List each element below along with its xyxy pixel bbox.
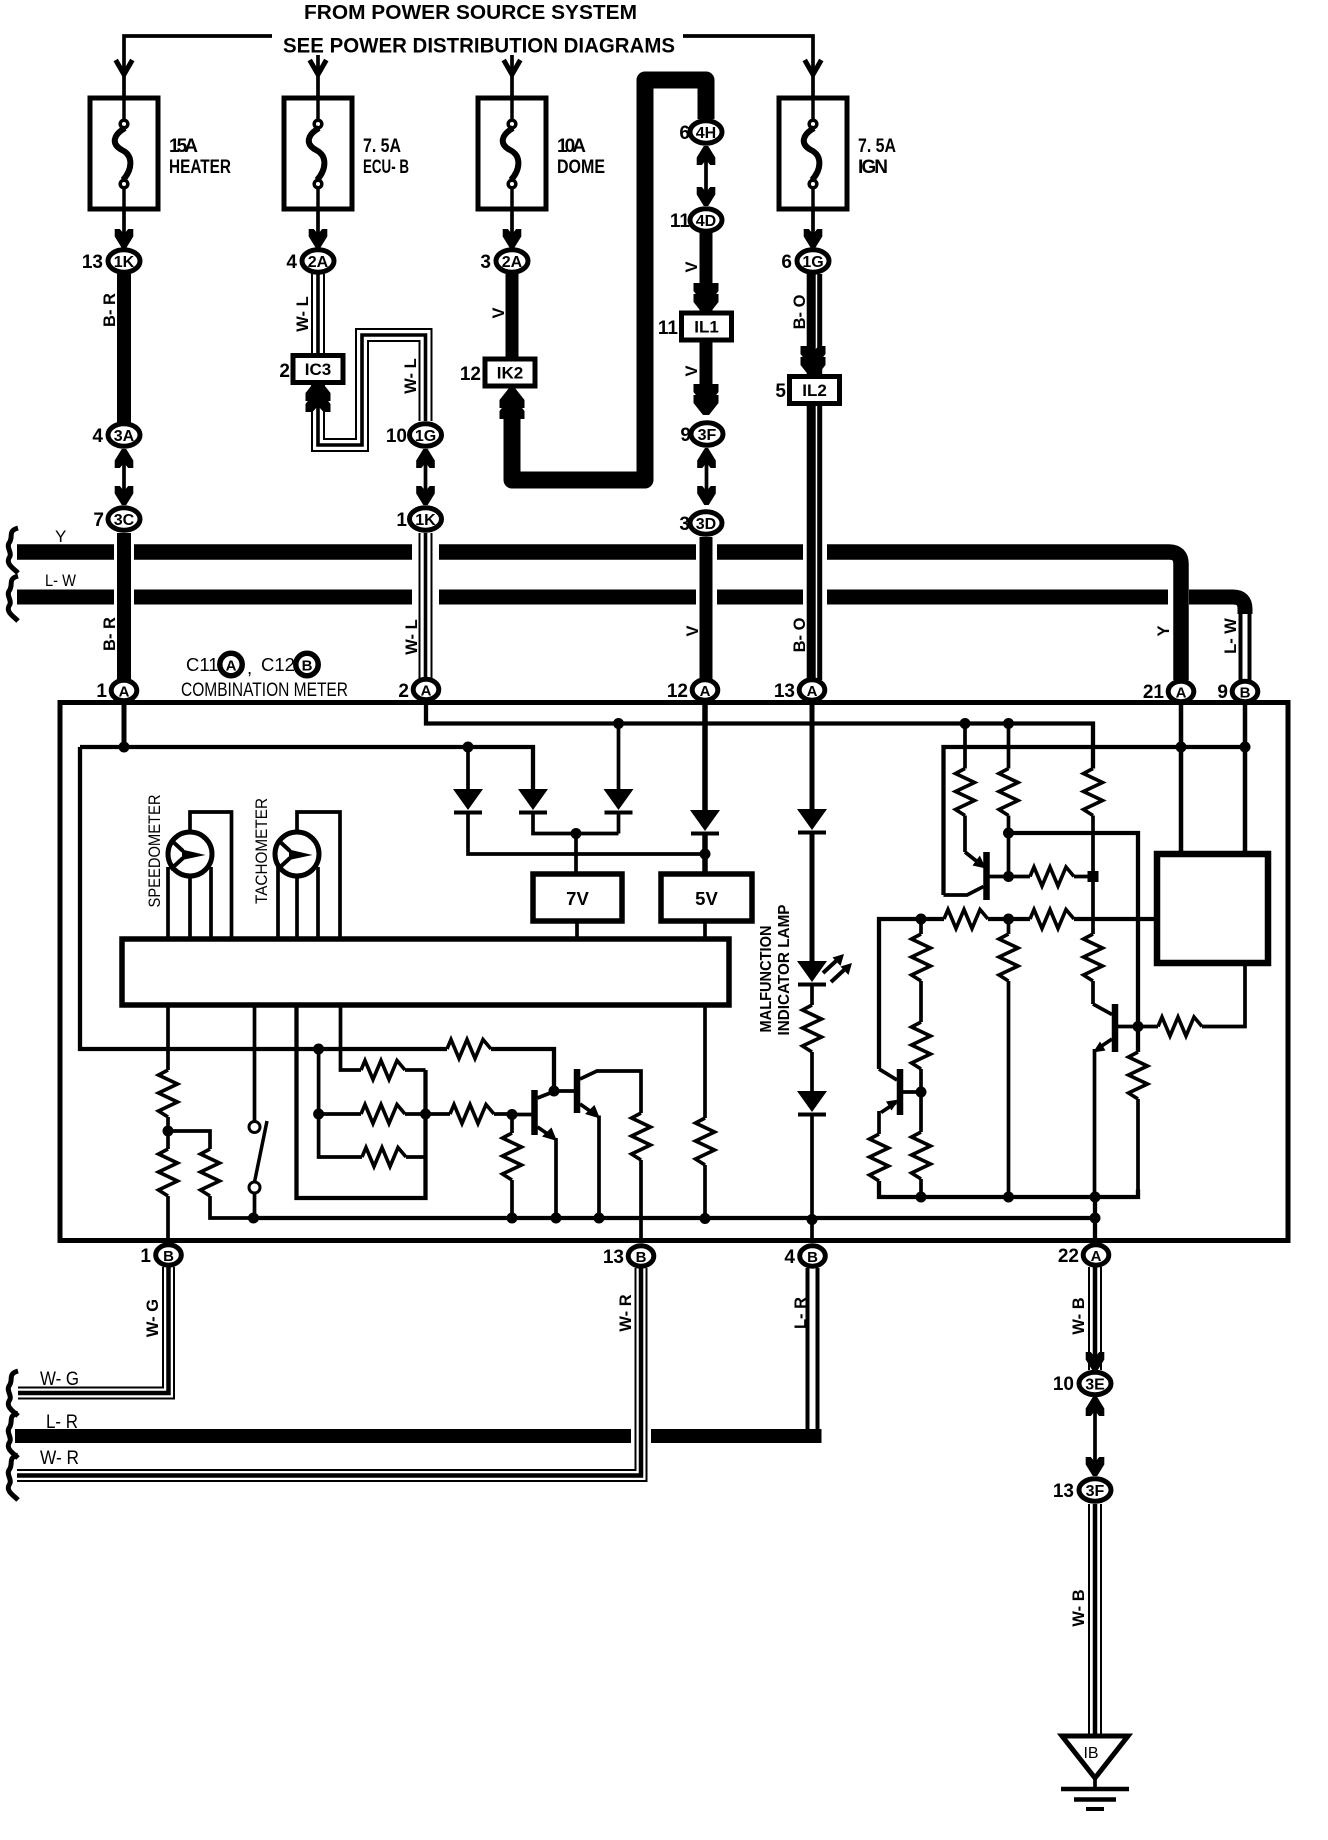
arrow into 2A dome bbox=[503, 229, 522, 248]
transistor Q5 base bar bbox=[574, 1069, 581, 1113]
wire 1A drop to node bbox=[122, 704, 127, 747]
svg-text:B: B bbox=[163, 1248, 174, 1265]
resistor R13 bbox=[1129, 1052, 1148, 1099]
svg-text:TACHOMETER: TACHOMETER bbox=[253, 798, 271, 904]
resistor R5 bbox=[944, 910, 988, 929]
resistor R7 bbox=[919, 919, 923, 934]
node Q4 base bbox=[507, 1109, 518, 1120]
resistor R25 bbox=[362, 1148, 406, 1167]
svg-text:IB: IB bbox=[1083, 1745, 1098, 1762]
node h5 R8 bbox=[1003, 1192, 1014, 1203]
connector 1G pin 6 bbox=[797, 250, 829, 272]
svg-text:2A: 2A bbox=[308, 254, 329, 271]
wire DOME fuse to connector 2A bbox=[510, 209, 514, 235]
svg-text:2: 2 bbox=[279, 361, 290, 382]
ground stem bbox=[1093, 1778, 1097, 1789]
connector IL2 pin 5 bbox=[790, 377, 840, 404]
svg-text:11: 11 bbox=[658, 318, 679, 339]
svg-text:B: B bbox=[636, 1249, 647, 1266]
wire W-G 1B to bus bbox=[18, 1267, 174, 1399]
arrow into ECU-B fuse bbox=[310, 60, 327, 75]
wire V 3D to meter 12A bbox=[700, 537, 713, 680]
svg-text:L- W: L- W bbox=[1222, 618, 1240, 654]
connector 4D pin 11 bbox=[690, 209, 722, 231]
brace W-G bbox=[8, 1371, 18, 1416]
svg-text:HEATER: HEATER bbox=[169, 157, 231, 178]
svg-text:9: 9 bbox=[680, 425, 691, 446]
wire x318 drop bbox=[319, 1049, 362, 1157]
wire Q2 emitter down bbox=[1093, 1049, 1097, 1197]
wire 12A drop bbox=[702, 702, 708, 810]
connector IC3 pin 2 bbox=[293, 356, 343, 383]
wire Q1 base to R4 bbox=[990, 875, 1031, 879]
node R2 tap bbox=[1003, 718, 1014, 729]
svg-text:W- B: W- B bbox=[1070, 1297, 1088, 1334]
transistor Q1 collector bbox=[944, 887, 984, 896]
wire Q3 emitter to R10 bbox=[877, 1111, 881, 1134]
svg-text:2: 2 bbox=[398, 681, 409, 702]
node R1 tap bbox=[960, 718, 971, 729]
svg-text:B- O: B- O bbox=[791, 294, 809, 329]
svg-text:3F: 3F bbox=[1086, 1483, 1105, 1500]
arrows into IK2 bbox=[500, 388, 525, 408]
svg-text:V: V bbox=[684, 625, 702, 636]
node Q2 base junction bbox=[1133, 1021, 1144, 1032]
svg-text:W- L: W- L bbox=[294, 296, 312, 331]
svg-text:A: A bbox=[1091, 1248, 1102, 1265]
resistor R14 bbox=[166, 1005, 170, 1070]
wire W-B 22A to 3E bbox=[1089, 1267, 1101, 1370]
transistor Q1 emitter with arrow bbox=[965, 852, 982, 866]
wire L-W drop to 9B bbox=[1241, 610, 1250, 680]
wire h4 rail bbox=[879, 919, 944, 1069]
wire L-R 4B drop bbox=[806, 1268, 822, 1443]
brace L-W left end bbox=[8, 576, 18, 621]
node D1 tap bbox=[463, 742, 474, 753]
ground IB triangle bbox=[1062, 1736, 1128, 1778]
svg-text:IGN: IGN bbox=[858, 157, 888, 178]
diode D5 bbox=[797, 809, 827, 833]
svg-text:12: 12 bbox=[460, 364, 481, 385]
transistor Q5 base lead bbox=[554, 1089, 574, 1093]
svg-text:Y: Y bbox=[55, 527, 66, 546]
wire W-L 2A to IC3 bbox=[312, 274, 324, 356]
wire collector rail h2 bbox=[944, 747, 1246, 895]
fuse 15A HEATER bbox=[90, 98, 158, 209]
switch lead bbox=[253, 1005, 257, 1122]
connector 3E pin 10 bbox=[1079, 1372, 1111, 1394]
LED malfunction indicator lamp bbox=[797, 961, 827, 985]
svg-text:W- L: W- L bbox=[402, 358, 420, 393]
svg-text:C12: C12 bbox=[261, 654, 295, 675]
svg-text:5: 5 bbox=[775, 381, 786, 402]
node switch h7 bbox=[248, 1213, 259, 1224]
node Q4 Q5 bbox=[549, 1086, 560, 1097]
regulator 7V bbox=[533, 874, 622, 921]
svg-text:1G: 1G bbox=[415, 428, 436, 445]
casing Y bus over L-W bbox=[1168, 589, 1189, 606]
svg-text:13: 13 bbox=[603, 1247, 624, 1268]
svg-text:A: A bbox=[119, 684, 130, 701]
resistor R11 bbox=[912, 1022, 931, 1069]
wire ECU-B fuse to connector 2A bbox=[316, 209, 320, 235]
node h5 22A bbox=[1090, 1192, 1101, 1203]
link 4H to 4D bbox=[704, 146, 708, 206]
wire Q5 emitter down bbox=[597, 1116, 601, 1219]
fuse 7.5A ECU-B bbox=[284, 98, 352, 209]
arrow into 1G bbox=[804, 229, 823, 248]
node h5 R12 bbox=[916, 1192, 927, 1203]
arrows into 3F bbox=[694, 384, 719, 404]
svg-text:4: 4 bbox=[92, 426, 103, 447]
svg-text:3: 3 bbox=[480, 252, 491, 273]
svg-text:V: V bbox=[490, 307, 508, 318]
node 7V feed bbox=[571, 828, 582, 839]
transistor Q2 base bar bbox=[1112, 1004, 1119, 1052]
arrows into IC3 bbox=[306, 381, 331, 401]
connector 13A meter bbox=[799, 680, 825, 700]
node D3 tap bbox=[613, 718, 624, 729]
svg-text:1G: 1G bbox=[802, 254, 823, 271]
svg-text:ECU- B: ECU- B bbox=[363, 157, 409, 178]
svg-text:W- R: W- R bbox=[617, 1294, 635, 1331]
svg-text:7V: 7V bbox=[566, 888, 589, 909]
svg-text:A: A bbox=[421, 683, 432, 700]
node MIL to 4B bbox=[807, 1214, 818, 1225]
arrow into 1K bbox=[115, 229, 134, 248]
svg-text:1K: 1K bbox=[415, 512, 436, 529]
wire into ECU-B fuse bbox=[316, 55, 320, 98]
fuse 10A DOME bbox=[478, 98, 546, 209]
svg-text:10A: 10A bbox=[557, 136, 586, 157]
connector IL1 pin 11 bbox=[682, 313, 732, 340]
connector 1A meter bbox=[111, 680, 137, 700]
bus L-W horizontal bbox=[17, 597, 1245, 614]
svg-text:1: 1 bbox=[140, 1246, 151, 1267]
svg-text:B- R: B- R bbox=[101, 617, 119, 651]
link 1G to 1K bbox=[424, 449, 428, 505]
connector 1K pin 1 bbox=[410, 508, 442, 530]
svg-text:7. 5A: 7. 5A bbox=[858, 136, 896, 157]
node Q4 emitter h7 bbox=[551, 1213, 562, 1224]
connector 3D pin 3 bbox=[690, 512, 722, 534]
connector 13B meter bottom bbox=[628, 1246, 654, 1266]
connector 1B meter bottom bbox=[156, 1245, 182, 1265]
bus Y horizontal with corner to 21A bbox=[17, 552, 1181, 680]
diode D2 bbox=[518, 789, 548, 813]
connector 12A meter bbox=[692, 680, 718, 700]
link 3F to 3D bbox=[705, 448, 709, 505]
svg-text:B- O: B- O bbox=[791, 617, 809, 652]
transistor Q2 base lead bbox=[1118, 1025, 1138, 1029]
svg-text:A: A bbox=[226, 658, 237, 675]
transistor Q4 base bar bbox=[531, 1090, 538, 1135]
svg-text:1: 1 bbox=[396, 510, 407, 531]
speedometer leads bbox=[168, 812, 232, 939]
node R2 h3 bbox=[1003, 828, 1014, 839]
svg-text:B: B bbox=[302, 658, 313, 675]
svg-text:10: 10 bbox=[1053, 1374, 1074, 1395]
svg-text:L- R: L- R bbox=[792, 1297, 810, 1329]
wire B-R 1K to 3A bbox=[117, 274, 131, 423]
svg-text:,: , bbox=[247, 657, 252, 678]
resistor R4 bbox=[1030, 867, 1074, 886]
resistor R6 bbox=[1084, 934, 1103, 981]
transistor Q5 collector to R20 bbox=[580, 1071, 641, 1113]
casing V drop bbox=[696, 540, 717, 608]
connector 3F pin 9 bbox=[691, 423, 723, 445]
wire V 4D to IL1 bbox=[700, 233, 713, 313]
transistor Q3 collector bbox=[879, 1069, 897, 1080]
svg-text:12: 12 bbox=[667, 681, 688, 702]
svg-text:21: 21 bbox=[1143, 682, 1165, 703]
svg-text:C11: C11 bbox=[186, 654, 219, 675]
connector 1G pin 10 bbox=[410, 424, 442, 446]
arrow into IGN fuse bbox=[805, 60, 822, 75]
node h4 R7 bbox=[916, 914, 927, 925]
svg-text:COMBINATION METER: COMBINATION METER bbox=[181, 680, 348, 701]
connector symbol B bbox=[296, 653, 318, 675]
wire 5V to logic bar bbox=[703, 921, 707, 939]
svg-text:7. 5A: 7. 5A bbox=[363, 136, 401, 157]
connector 2A meter bbox=[413, 679, 439, 699]
connector IK2 pin 12 bbox=[485, 359, 535, 386]
connector 4H pin 6 bbox=[690, 121, 722, 143]
wire ground rail h7 bbox=[254, 1216, 1096, 1220]
svg-text:6: 6 bbox=[679, 123, 690, 144]
combination meter box bbox=[60, 703, 1288, 1241]
svg-text:W- G: W- G bbox=[144, 1299, 162, 1337]
connector 21A meter bbox=[1168, 681, 1194, 701]
transistor Q2 collector bbox=[1093, 1004, 1112, 1015]
connector 2A pin 4 bbox=[302, 250, 334, 272]
arrow into 3E bbox=[1086, 1352, 1105, 1371]
brace Y left end bbox=[8, 528, 18, 573]
resistor R2 bbox=[1007, 724, 1011, 769]
resistor R3 bbox=[1084, 769, 1103, 816]
resistor R20 bbox=[632, 1113, 651, 1160]
svg-text:FROM POWER SOURCE SYSTEM: FROM POWER SOURCE SYSTEM bbox=[304, 1, 637, 24]
svg-text:A: A bbox=[700, 683, 711, 700]
logic bar block bbox=[122, 939, 729, 1005]
svg-text:DOME: DOME bbox=[557, 157, 605, 178]
resistor R16 bbox=[159, 1149, 178, 1196]
svg-text:3F: 3F bbox=[698, 427, 717, 444]
transistor Q2 emitter with arrow bbox=[1098, 1039, 1112, 1049]
connector 3F pin 13 bbox=[1079, 1479, 1111, 1501]
svg-text:4D: 4D bbox=[696, 213, 716, 230]
fuse 7.5A IGN bbox=[779, 98, 847, 209]
wire emitter rail h5 bbox=[879, 1181, 1138, 1197]
speedometer gauge bbox=[168, 832, 212, 876]
node h6 tap bbox=[313, 1044, 324, 1055]
big box block bbox=[1157, 854, 1268, 963]
wire W-B 3F to ground bbox=[1089, 1504, 1101, 1736]
wire h6 to R17 bbox=[319, 1047, 447, 1051]
diode D1 bbox=[466, 747, 470, 789]
svg-text:IL2: IL2 bbox=[802, 381, 827, 400]
wire W-L S-bend IC3 to 1G bbox=[312, 329, 432, 451]
wire W-L 1K to meter 2A bbox=[420, 533, 432, 679]
wire 9B drop bbox=[1243, 703, 1248, 854]
wire loop under bar bbox=[297, 1005, 426, 1198]
node 21A collector rail bbox=[1176, 742, 1187, 753]
resistor R17 bbox=[447, 1040, 491, 1059]
connector 9B meter bbox=[1232, 681, 1258, 701]
node Q3 base bbox=[916, 1087, 927, 1098]
resistor R9 bbox=[1138, 1025, 1158, 1029]
node at 1A drop bbox=[119, 742, 130, 753]
svg-text:13: 13 bbox=[1053, 1481, 1074, 1502]
wire HEATER fuse to connector 1K bbox=[122, 209, 126, 235]
svg-text:5V: 5V bbox=[695, 888, 718, 909]
wire V 2A to IK2 bbox=[506, 274, 519, 359]
svg-text:W- L: W- L bbox=[403, 619, 421, 654]
svg-text:4H: 4H bbox=[696, 125, 716, 142]
wire 13A drop bbox=[810, 702, 815, 809]
resistor R15 branch bbox=[168, 1131, 210, 1149]
arrows into IL1 bbox=[694, 283, 719, 303]
wire to 7V regulator bbox=[574, 834, 578, 875]
resistor R18 bbox=[426, 1112, 451, 1116]
resistor R10 bbox=[870, 1134, 889, 1181]
resistor R1 bbox=[963, 724, 967, 769]
arrow into HEATER fuse bbox=[116, 60, 133, 75]
node D1-D4 join bbox=[700, 849, 711, 860]
wire from power source to IGN fuse bbox=[683, 36, 813, 98]
transistor Q3 emitter with arrow bbox=[881, 1103, 896, 1113]
node 22A h7 bbox=[1090, 1213, 1101, 1224]
svg-text:9: 9 bbox=[1217, 682, 1228, 703]
svg-text:13: 13 bbox=[774, 681, 795, 702]
wire 2A drop and rail y723 bbox=[426, 704, 1093, 769]
node Q4 base R19 h7 bbox=[507, 1213, 518, 1224]
node h4 R8 bbox=[1003, 914, 1014, 925]
transistor Q4 emitter with arrow bbox=[538, 1127, 553, 1137]
resistor R24 bbox=[313, 1109, 324, 1120]
svg-text:4: 4 bbox=[784, 1247, 795, 1268]
svg-text:13: 13 bbox=[82, 252, 103, 273]
connector symbol A bbox=[220, 653, 242, 675]
svg-text:V: V bbox=[683, 261, 701, 272]
svg-text:10: 10 bbox=[386, 426, 407, 447]
switch parking brake bbox=[249, 1122, 260, 1133]
svg-text:B: B bbox=[1240, 685, 1251, 702]
node R4 to R3 chain bbox=[1088, 871, 1099, 882]
resistor R8 bbox=[1007, 919, 1011, 934]
connector 1K pin 13 bbox=[108, 250, 140, 272]
arrow into 2A bbox=[309, 229, 328, 248]
node Q1 base bbox=[1003, 871, 1014, 882]
node Q5 emitter h7 bbox=[594, 1213, 605, 1224]
svg-text:11: 11 bbox=[670, 211, 691, 232]
svg-text:B- R: B- R bbox=[101, 293, 119, 327]
resistor R23 branch bbox=[341, 1005, 362, 1070]
transistor Q3 base bar bbox=[897, 1069, 904, 1115]
transistor Q3 base lead bbox=[903, 1090, 921, 1094]
connector 3A pin 4 bbox=[108, 424, 140, 446]
transistor Q4 collector bbox=[538, 1092, 555, 1099]
wire W-R 13B to bus bbox=[17, 1268, 647, 1481]
casing B-O drop bbox=[803, 540, 827, 608]
node R24 right bbox=[420, 1109, 431, 1120]
transistor Q1 base bar bbox=[983, 852, 990, 900]
svg-text:SPEEDOMETER: SPEEDOMETER bbox=[146, 794, 164, 907]
regulator 5V bbox=[661, 874, 752, 921]
link 3E to 3F bbox=[1093, 1398, 1097, 1474]
ground hatching bbox=[1061, 1787, 1129, 1792]
svg-text:1K: 1K bbox=[114, 254, 135, 271]
tachometer gauge bbox=[275, 832, 319, 876]
wire 21A drop bbox=[1179, 703, 1184, 854]
svg-text:L- W: L- W bbox=[45, 571, 76, 590]
bus L-R solid bbox=[15, 1429, 814, 1443]
svg-text:V: V bbox=[683, 365, 701, 376]
wire internal left rail bbox=[80, 747, 319, 1049]
svg-text:IL1: IL1 bbox=[694, 318, 719, 337]
wire internal top rail y747 bbox=[80, 747, 533, 789]
svg-text:W- B: W- B bbox=[1070, 1589, 1088, 1626]
wire V thick U-turn to 4H bbox=[512, 80, 706, 480]
casing W-L drop bbox=[412, 540, 439, 608]
svg-text:3D: 3D bbox=[696, 516, 716, 533]
svg-text:4: 4 bbox=[286, 252, 297, 273]
svg-text:2A: 2A bbox=[502, 254, 523, 271]
wire Q4 emitter down bbox=[554, 1138, 558, 1218]
svg-text:W- G: W- G bbox=[40, 1369, 79, 1390]
diode D4 bbox=[690, 810, 720, 834]
svg-text:SEE POWER DISTRIBUTION DIAGRAM: SEE POWER DISTRIBUTION DIAGRAMS bbox=[283, 34, 675, 58]
link 3A to 3C bbox=[122, 449, 126, 505]
svg-text:W- R: W- R bbox=[40, 1448, 79, 1469]
tachometer leads bbox=[278, 812, 340, 939]
svg-text:22: 22 bbox=[1058, 1246, 1079, 1267]
svg-text:15A: 15A bbox=[169, 136, 198, 157]
svg-text:3: 3 bbox=[679, 514, 690, 535]
wire V IL1 to 3F bbox=[700, 340, 713, 410]
diode D3 bbox=[617, 724, 621, 790]
diode D6 bbox=[797, 1091, 827, 1115]
casing W-R over L-R bus bbox=[631, 1426, 651, 1446]
wire 7V to logic bar bbox=[575, 921, 579, 939]
resistor R6h bbox=[1030, 910, 1074, 929]
wire into DOME fuse bbox=[510, 55, 514, 98]
wire B-O IL2 to meter 13A bbox=[811, 403, 820, 680]
svg-text:A: A bbox=[807, 683, 818, 700]
casing B-R drop bbox=[114, 540, 134, 608]
brace L-R bbox=[8, 1413, 18, 1458]
transistor Q5 emitter with arrow bbox=[580, 1104, 595, 1115]
svg-text:INDICATOR LAMP: INDICATOR LAMP bbox=[776, 905, 793, 1036]
resistor R19 bbox=[510, 1115, 514, 1134]
arrows into IL2 bbox=[801, 346, 826, 366]
svg-text:IK2: IK2 bbox=[497, 364, 523, 383]
resistor R12 bbox=[912, 1132, 931, 1179]
svg-text:7: 7 bbox=[93, 510, 104, 531]
resistor R21 bbox=[703, 1005, 707, 1118]
svg-text:L- R: L- R bbox=[46, 1412, 78, 1433]
svg-text:B: B bbox=[807, 1249, 818, 1266]
brace W-R bbox=[8, 1455, 18, 1500]
wire from power source to HEATER fuse bbox=[124, 36, 272, 98]
arrow into DOME fuse bbox=[504, 60, 521, 75]
svg-text:IC3: IC3 bbox=[305, 360, 331, 379]
connector 2A pin 3 bbox=[496, 250, 528, 272]
node R21 h7 bbox=[700, 1213, 711, 1224]
svg-text:Y: Y bbox=[1155, 625, 1173, 636]
svg-text:A: A bbox=[1176, 685, 1187, 702]
connector 4B meter bottom bbox=[800, 1246, 826, 1266]
